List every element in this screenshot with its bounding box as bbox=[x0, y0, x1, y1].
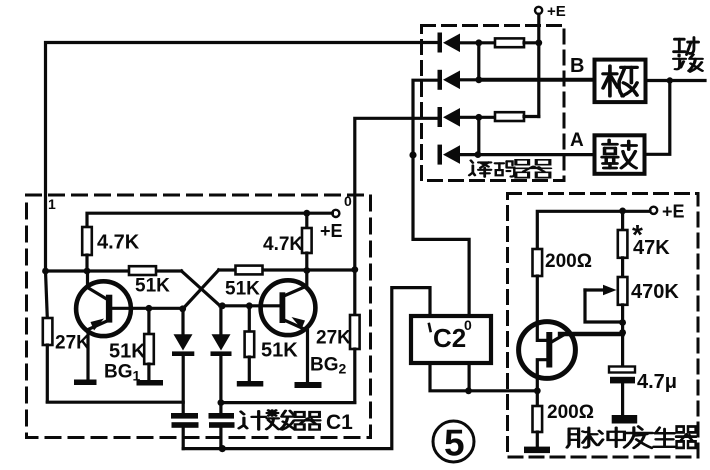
node: left collector line start bbox=[42, 268, 49, 275]
power +E terminal (flip-flop) bbox=[332, 210, 339, 217]
resistor 4.7K right bbox=[302, 213, 312, 270]
node: emitter / C2 junction bbox=[534, 387, 541, 394]
resistor 200Ω top bbox=[533, 249, 543, 323]
node: D3-D4 anode junction bbox=[475, 114, 482, 121]
svg-text:1: 1 bbox=[48, 196, 56, 212]
resistor 51K horizontal left bbox=[129, 266, 156, 275]
power +E terminal (pulse gen) bbox=[650, 207, 657, 214]
svg-text:5: 5 bbox=[444, 423, 465, 464]
svg-text:47K: 47K bbox=[633, 237, 670, 259]
ground (51K right) bbox=[237, 381, 263, 387]
svg-text:4.7K: 4.7K bbox=[97, 232, 140, 254]
wire: decoder bus to C2 bbox=[413, 155, 469, 316]
diode D1 bbox=[438, 33, 479, 53]
svg-text:51K: 51K bbox=[109, 341, 146, 363]
node: 0-side collector end bbox=[351, 266, 358, 273]
node: wiper/base junction a bbox=[619, 319, 626, 326]
label 计数器 C1 bbox=[239, 410, 353, 434]
svg-text:A: A bbox=[570, 130, 584, 151]
block 鼓 (drum) bbox=[595, 135, 645, 174]
counter box (dashed) 计数器 bbox=[27, 195, 371, 438]
power +E terminal (top) bbox=[535, 7, 542, 14]
svg-text:27K: 27K bbox=[55, 333, 90, 354]
wire: BG1 base line bbox=[112, 307, 183, 310]
wire: BG2 base line bbox=[220, 304, 280, 307]
node: BG2 base / steering diode bbox=[219, 302, 226, 309]
wire: 板 output to power amp bbox=[646, 79, 706, 82]
svg-text:+E: +E bbox=[662, 202, 685, 222]
node: D2 anode bbox=[475, 76, 482, 83]
pulse generator box (dashed) 脉冲发生器 bbox=[508, 194, 699, 458]
resistor 27K left bbox=[43, 271, 53, 402]
node: BG1 base / 51K-gnd bbox=[146, 305, 153, 312]
diode D3 bbox=[438, 107, 479, 127]
svg-text:4.7μ: 4.7μ bbox=[637, 371, 677, 393]
capacitor 4.7μ bbox=[609, 367, 635, 416]
wire: emitter down bbox=[536, 378, 539, 407]
wire: FF output 1 to diode D1 (vertical + top horizontal) bbox=[46, 43, 438, 272]
resistor 27K right bbox=[350, 270, 360, 403]
svg-text:+E: +E bbox=[320, 221, 343, 241]
figure number 5 bbox=[433, 421, 474, 464]
block 板 (cymbal) bbox=[595, 60, 646, 103]
wire: D2 cathode to common trigger bus (corner down) bbox=[413, 80, 438, 155]
transistor BG1 bbox=[76, 271, 131, 380]
ground (BG2 emitter) bbox=[295, 382, 322, 388]
resistor 51K horizontal right bbox=[236, 266, 263, 275]
svg-text:+E: +E bbox=[547, 3, 566, 20]
node: BG1 base / steering diode bbox=[179, 305, 186, 312]
steering diode left bbox=[172, 309, 194, 413]
svg-text:51K: 51K bbox=[135, 276, 170, 297]
label 译码器 bbox=[469, 160, 550, 178]
wire: bottom bias line right (diode node to 27K right) bbox=[221, 401, 355, 404]
decoder box (dashed) 译码器 bbox=[422, 26, 565, 181]
capacitor C-right (trigger) bbox=[209, 413, 235, 449]
wire: D3 anode to D4 anode bbox=[477, 117, 480, 154]
wire: +E rail of flip-flop bbox=[87, 213, 332, 227]
diode D4 bbox=[438, 145, 478, 165]
node: BG2 collector junction bbox=[303, 267, 310, 274]
node: wiper/base junction b bbox=[619, 329, 626, 336]
resistor 51K vertical right (base to gnd) bbox=[245, 306, 255, 381]
wire: cross-coupling left-collector to BG2 base bbox=[182, 271, 221, 306]
node: D2/D4 cathode bus junction bbox=[409, 151, 416, 158]
wire: top rail bbox=[537, 211, 650, 249]
node: BG1 collector junction bbox=[84, 268, 91, 275]
svg-text:200Ω: 200Ω bbox=[547, 402, 594, 423]
resistor 4.7K left bbox=[82, 227, 92, 271]
svg-text:4.7K: 4.7K bbox=[263, 234, 303, 255]
label 功放 (power amp) bbox=[674, 37, 703, 71]
transistor Q (pulse gen) bbox=[519, 322, 623, 379]
node: 47K top junction bbox=[619, 208, 626, 215]
wire: +E rail vertical bbox=[537, 14, 540, 116]
resistor R-top (decoder pullup 1) bbox=[479, 38, 539, 47]
svg-text:51K: 51K bbox=[261, 340, 298, 362]
svg-text:B: B bbox=[570, 55, 584, 77]
ground (BG1 emitter) bbox=[74, 380, 97, 386]
svg-text:200Ω: 200Ω bbox=[545, 251, 592, 272]
wire: cross-coupling right-collector to BG1 base bbox=[183, 270, 219, 309]
node: +E / R1 junction bbox=[535, 39, 542, 46]
block C2 bbox=[411, 316, 491, 363]
wire: 鼓 output up to output node bbox=[645, 81, 670, 155]
wire: BG1 collector line bbox=[46, 269, 182, 272]
resistor 51K vertical left (base to gnd) bbox=[144, 308, 154, 380]
node: D4 anode bbox=[475, 151, 482, 158]
potentiometer 470K bbox=[585, 277, 627, 322]
capacitor C-left (trigger) bbox=[171, 413, 199, 449]
wire: FF output 0 to diode D3 bbox=[355, 118, 438, 269]
node: C2 output junction bbox=[465, 387, 472, 394]
node: trigger line junction bbox=[219, 445, 226, 452]
diode D2 bbox=[438, 70, 479, 90]
resistor 47K (starred) bbox=[618, 211, 628, 277]
node: 4.7K right top bbox=[303, 210, 310, 217]
svg-text:0: 0 bbox=[464, 317, 472, 333]
ground (51K left) bbox=[137, 380, 164, 386]
wire: 470K bottom to base node bbox=[621, 305, 624, 367]
node: output junction bbox=[667, 77, 673, 83]
resistor R-mid (decoder pullup 2) bbox=[479, 112, 539, 121]
wire: bottom bias line left (27K to diode node) bbox=[47, 401, 183, 404]
svg-text:C2: C2 bbox=[433, 323, 466, 353]
node: D1-D2 anode junction bbox=[475, 39, 482, 46]
wire: BG2 collector line bbox=[219, 268, 355, 271]
svg-text:27K: 27K bbox=[316, 328, 351, 349]
node: right diode / bias line bbox=[218, 399, 225, 406]
resistor 200Ω bottom bbox=[533, 406, 543, 447]
transistor BG2 bbox=[261, 271, 316, 383]
svg-text:470K: 470K bbox=[631, 281, 679, 303]
wire: C2 outputs to emitter line bbox=[430, 363, 537, 391]
steering diode right bbox=[211, 306, 232, 413]
svg-text:C1: C1 bbox=[326, 411, 353, 434]
node: BG2 base / 51K-gnd bbox=[246, 302, 253, 309]
wire: trigger line from caps to C2 input bbox=[183, 288, 430, 449]
wire: B line (thick) to 板 box bbox=[479, 78, 595, 82]
ground (emitter resistor) bbox=[524, 447, 550, 454]
svg-text:51K: 51K bbox=[225, 279, 260, 300]
ground (4.7μ) bbox=[612, 415, 638, 424]
svg-text:0: 0 bbox=[344, 193, 352, 209]
label 脉冲发生器 bbox=[567, 426, 696, 447]
wire: A line to 鼓 box bbox=[478, 153, 595, 156]
wire: D1 anode to D2 anode bbox=[477, 43, 480, 80]
